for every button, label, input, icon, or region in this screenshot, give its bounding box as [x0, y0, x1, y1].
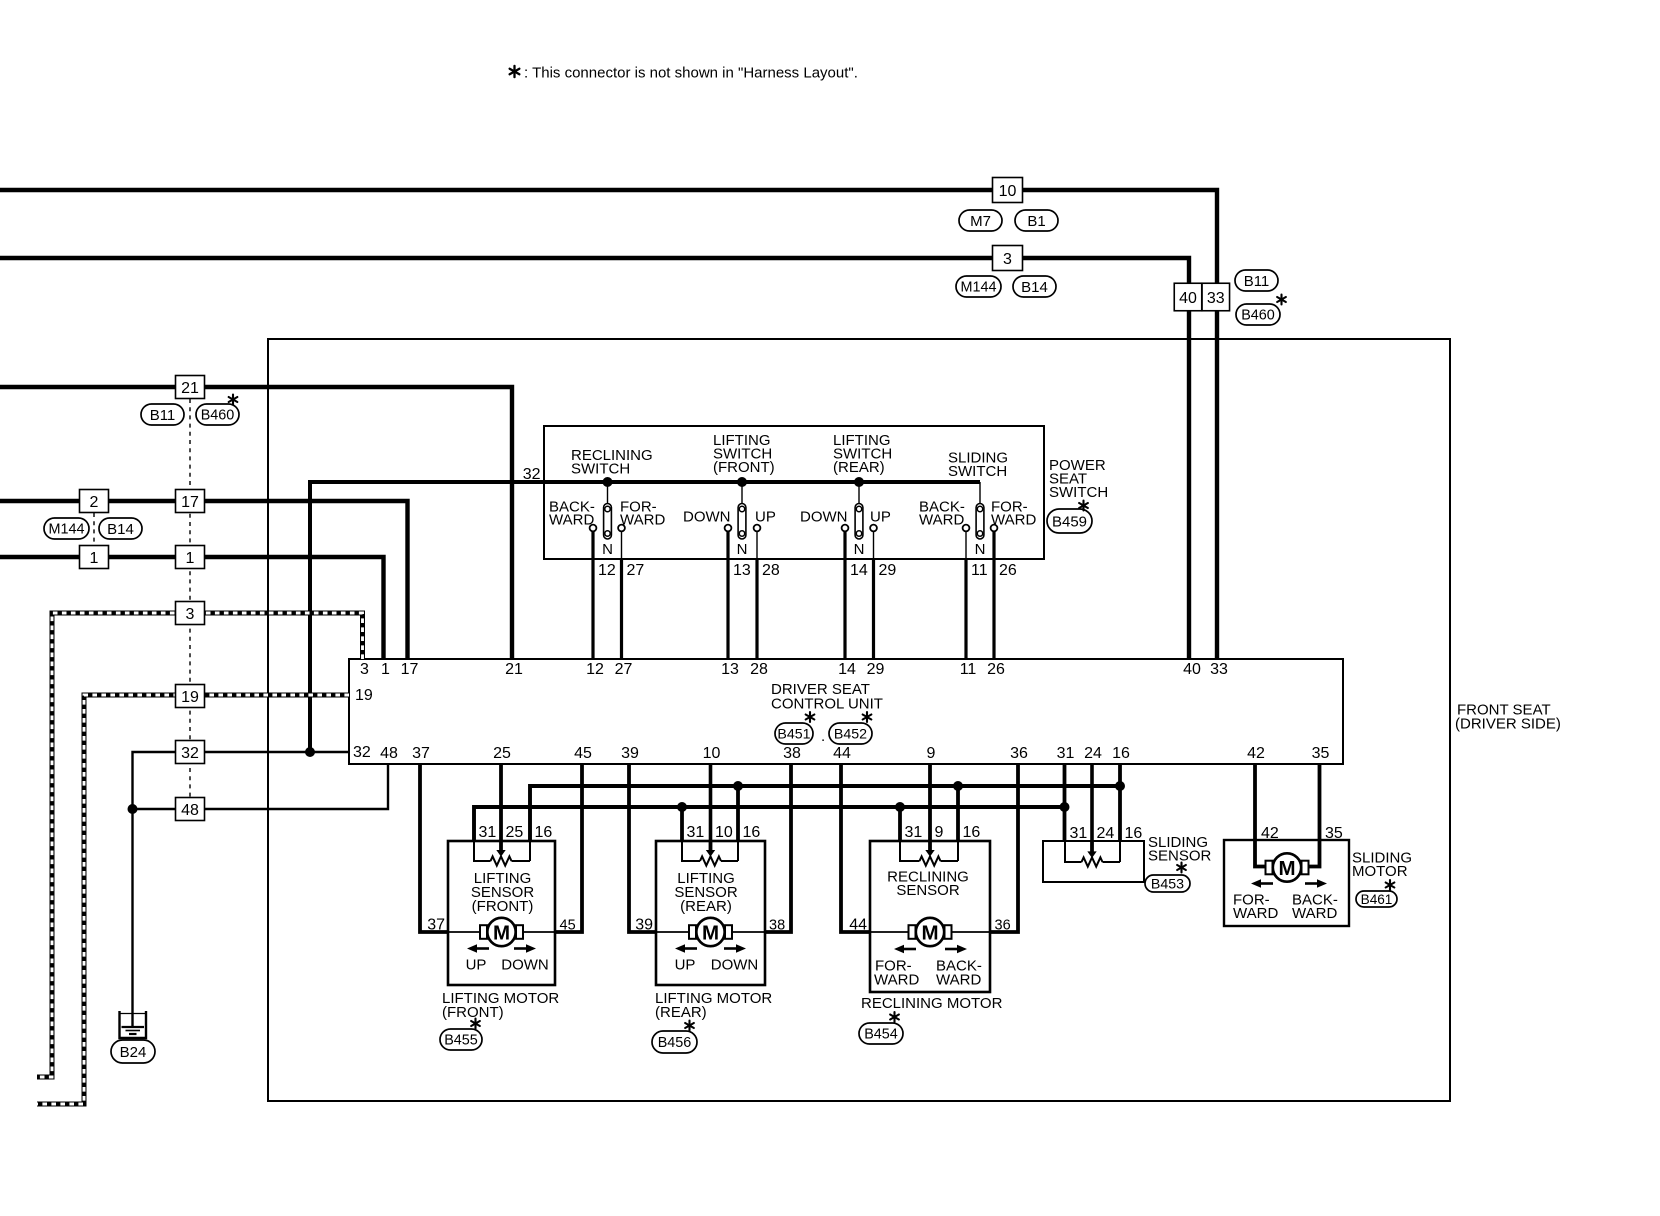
svg-text:12: 12	[586, 661, 604, 678]
svg-text:2: 2	[90, 494, 99, 511]
svg-text:31: 31	[1070, 825, 1088, 842]
svg-text:WARD: WARD	[620, 512, 665, 529]
svg-text:42: 42	[1247, 745, 1265, 762]
svg-text:SENSOR: SENSOR	[896, 882, 960, 899]
svg-text:B453: B453	[1151, 877, 1184, 893]
svg-text:B456: B456	[658, 1035, 692, 1051]
svg-text:M144: M144	[961, 280, 997, 296]
svg-text:UP: UP	[675, 957, 696, 974]
svg-text:B11: B11	[1244, 273, 1270, 290]
svg-text:SWITCH: SWITCH	[1049, 484, 1108, 501]
svg-text:WARD: WARD	[874, 972, 919, 989]
svg-text:39: 39	[621, 745, 639, 762]
svg-text:MOTOR: MOTOR	[1352, 863, 1408, 880]
svg-text:39: 39	[635, 917, 653, 934]
svg-text:SWITCH: SWITCH	[571, 461, 630, 478]
svg-text:N: N	[854, 541, 865, 558]
svg-text:17: 17	[181, 494, 199, 511]
svg-text:CONTROL UNIT: CONTROL UNIT	[771, 696, 883, 713]
svg-text:DOWN: DOWN	[501, 957, 549, 974]
svg-text:14: 14	[850, 562, 868, 579]
svg-text:(DRIVER SIDE): (DRIVER SIDE)	[1455, 716, 1561, 733]
svg-text:11: 11	[971, 562, 988, 579]
svg-text:16: 16	[535, 824, 553, 841]
svg-text:DOWN: DOWN	[683, 509, 731, 526]
svg-text:33: 33	[1207, 290, 1225, 307]
svg-text:48: 48	[380, 745, 398, 762]
svg-text:M7: M7	[970, 213, 991, 230]
svg-text:N: N	[602, 541, 613, 558]
svg-text:3: 3	[360, 661, 369, 678]
svg-text:N: N	[975, 541, 986, 558]
svg-text:25: 25	[493, 745, 511, 762]
svg-text:16: 16	[963, 824, 981, 841]
svg-text:36: 36	[995, 918, 1011, 934]
svg-text:SWITCH: SWITCH	[948, 463, 1007, 480]
svg-text:13: 13	[733, 562, 751, 579]
svg-text:SENSOR: SENSOR	[1148, 848, 1212, 865]
svg-text:UP: UP	[870, 509, 891, 526]
svg-text:16: 16	[743, 824, 761, 841]
svg-text:33: 33	[1210, 661, 1228, 678]
svg-text:17: 17	[401, 661, 419, 678]
svg-text:B14: B14	[107, 521, 134, 538]
svg-text:14: 14	[838, 661, 856, 678]
svg-text:WARD: WARD	[919, 512, 964, 529]
svg-text:31: 31	[687, 824, 705, 841]
svg-text:45: 45	[560, 918, 576, 934]
svg-text:UP: UP	[755, 509, 776, 526]
svg-text:(REAR): (REAR)	[680, 898, 732, 915]
svg-text:32: 32	[181, 745, 199, 762]
svg-text:(REAR): (REAR)	[833, 459, 885, 476]
svg-text:28: 28	[750, 661, 768, 678]
svg-text:28: 28	[762, 562, 780, 579]
svg-text:B459: B459	[1052, 513, 1087, 530]
svg-text:B14: B14	[1021, 279, 1048, 296]
svg-text:16: 16	[1112, 745, 1130, 762]
svg-text:DOWN: DOWN	[711, 957, 759, 974]
svg-text:WARD: WARD	[549, 512, 594, 529]
svg-text:10: 10	[703, 745, 721, 762]
svg-text:32: 32	[353, 744, 371, 761]
svg-text:10: 10	[715, 824, 733, 841]
svg-text:B454: B454	[864, 1027, 898, 1043]
svg-text:RECLINING MOTOR: RECLINING MOTOR	[861, 995, 1003, 1012]
svg-text:27: 27	[615, 661, 633, 678]
svg-text:B455: B455	[444, 1033, 478, 1049]
svg-text:31: 31	[905, 824, 923, 841]
svg-text:45: 45	[574, 745, 592, 762]
svg-text:(FRONT): (FRONT)	[713, 459, 775, 476]
svg-text:(FRONT): (FRONT)	[442, 1004, 504, 1021]
svg-text:.: .	[821, 728, 825, 745]
svg-text:26: 26	[987, 661, 1005, 678]
svg-text:19: 19	[355, 687, 373, 704]
svg-text:WARD: WARD	[991, 512, 1036, 529]
svg-text:1: 1	[186, 550, 195, 567]
svg-text:24: 24	[1084, 745, 1102, 762]
svg-text:35: 35	[1312, 745, 1330, 762]
svg-text:9: 9	[927, 745, 936, 762]
svg-text:3: 3	[186, 606, 195, 623]
svg-text:12: 12	[598, 562, 616, 579]
svg-text:10: 10	[999, 183, 1017, 200]
svg-text:11: 11	[960, 661, 977, 678]
svg-text:38: 38	[769, 918, 785, 934]
svg-text:B460: B460	[201, 408, 235, 424]
svg-text:21: 21	[505, 661, 523, 678]
svg-text:16: 16	[1125, 825, 1143, 842]
svg-text:M: M	[493, 921, 510, 944]
svg-text:29: 29	[879, 562, 897, 579]
svg-text:1: 1	[90, 550, 99, 567]
svg-text:1: 1	[381, 661, 390, 678]
svg-text:13: 13	[721, 661, 739, 678]
svg-text:21: 21	[181, 380, 199, 397]
svg-text:B24: B24	[120, 1044, 147, 1061]
svg-text:36: 36	[1010, 745, 1028, 762]
svg-text:19: 19	[181, 689, 199, 706]
svg-text:24: 24	[1097, 825, 1115, 842]
svg-text:: This connector is not shown: : This connector is not shown in "Harnes…	[524, 65, 858, 82]
svg-text:40: 40	[1179, 290, 1197, 307]
svg-text:9: 9	[935, 824, 944, 841]
svg-text:B460: B460	[1241, 308, 1275, 324]
svg-text:B461: B461	[1361, 892, 1393, 907]
svg-text:M144: M144	[49, 522, 85, 538]
svg-text:29: 29	[867, 661, 885, 678]
svg-text:37: 37	[427, 917, 445, 934]
svg-text:WARD: WARD	[1233, 905, 1278, 922]
svg-text:44: 44	[849, 917, 867, 934]
svg-text:M: M	[1278, 857, 1295, 880]
svg-text:B1: B1	[1027, 213, 1045, 230]
svg-text:40: 40	[1183, 661, 1201, 678]
svg-text:M: M	[702, 921, 719, 944]
svg-text:38: 38	[783, 745, 801, 762]
svg-text:B452: B452	[834, 727, 867, 743]
svg-text:44: 44	[833, 745, 851, 762]
svg-text:32: 32	[523, 466, 541, 483]
svg-text:37: 37	[412, 745, 430, 762]
svg-text:25: 25	[506, 824, 524, 841]
svg-text:35: 35	[1325, 825, 1343, 842]
svg-text:WARD: WARD	[936, 972, 981, 989]
svg-text:(FRONT): (FRONT)	[472, 898, 534, 915]
svg-text:27: 27	[627, 562, 645, 579]
svg-text:M: M	[921, 921, 938, 944]
svg-text:UP: UP	[466, 957, 487, 974]
svg-text:DOWN: DOWN	[800, 509, 848, 526]
svg-text:48: 48	[181, 802, 199, 819]
svg-text:WARD: WARD	[1292, 905, 1337, 922]
svg-text:31: 31	[1057, 745, 1075, 762]
svg-text:(REAR): (REAR)	[655, 1004, 707, 1021]
svg-text:3: 3	[1003, 251, 1012, 268]
svg-text:B11: B11	[150, 407, 176, 424]
svg-text:N: N	[737, 541, 748, 558]
svg-text:26: 26	[999, 562, 1017, 579]
svg-text:B451: B451	[777, 727, 810, 743]
svg-text:31: 31	[479, 824, 497, 841]
svg-text:42: 42	[1261, 825, 1279, 842]
